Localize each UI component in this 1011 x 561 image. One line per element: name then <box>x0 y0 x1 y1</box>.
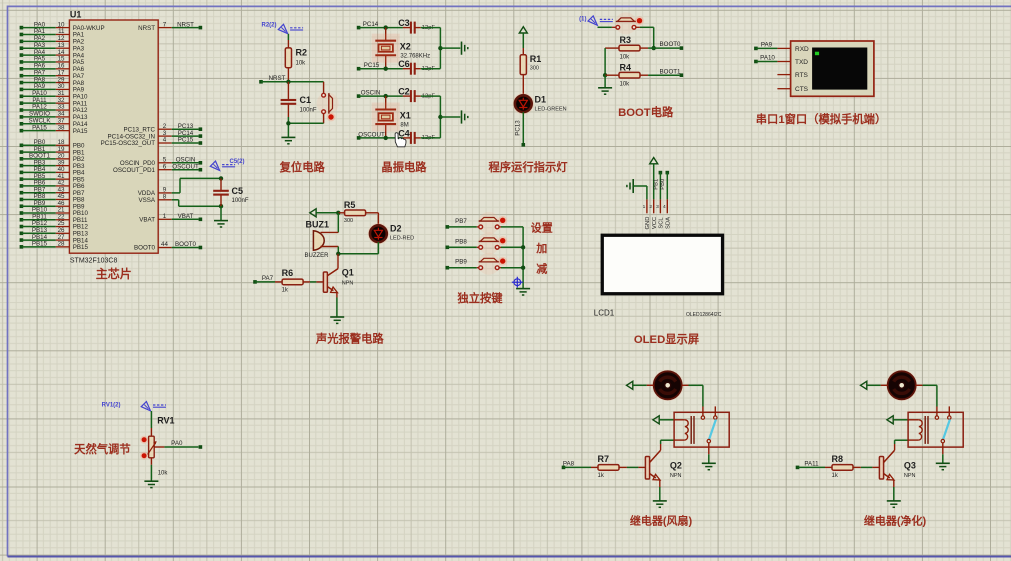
ground (OLED GND, left facing) <box>632 179 634 193</box>
svg-text:VBAT: VBAT <box>178 213 194 220</box>
capacitor C3 <box>403 27 411 29</box>
pin PA15 (38) wire <box>20 129 24 133</box>
resistor R4 <box>605 74 619 76</box>
svg-text:OLED12864I2C: OLED12864I2C <box>686 312 722 318</box>
svg-text:(1): (1) <box>579 17 586 23</box>
node PC13 <box>522 143 526 147</box>
ground (relay) <box>702 462 716 464</box>
crystal X1 <box>385 96 387 109</box>
resistor R2 <box>285 48 291 68</box>
svg-text:BOOT0: BOOT0 <box>175 241 197 248</box>
pin PB14 (27) wire <box>20 238 24 242</box>
wire D1 to PC13 node <box>522 112 524 145</box>
capacitor C5 <box>220 178 222 190</box>
wire C6 to ground rail <box>421 68 441 70</box>
svg-text:独立按键: 独立按键 <box>456 291 503 305</box>
net PB9 wire <box>446 266 450 270</box>
wire Q2 emitter to ground <box>659 487 661 501</box>
svg-text:R2: R2 <box>296 48 308 58</box>
resistor R5 <box>338 212 344 214</box>
net BOOT0 wire <box>654 47 680 49</box>
junction C5 bottom <box>219 204 223 208</box>
ground below C5 <box>214 220 228 222</box>
led D2 LED-RED <box>368 223 389 244</box>
svg-text:44: 44 <box>161 241 168 248</box>
pin PB13 (26) wire <box>20 232 24 236</box>
wire Q3 emitter to ground <box>893 487 895 501</box>
svg-text:减: 减 <box>536 261 547 275</box>
svg-text:R3: R3 <box>620 35 632 45</box>
push button PB8 <box>478 232 500 254</box>
junction OSCOUT/crystal <box>384 136 388 140</box>
svg-text:BOOT1: BOOT1 <box>660 68 682 75</box>
ground (buttons) <box>516 288 530 290</box>
origin marker <box>512 277 523 288</box>
ground (Q3) <box>887 500 901 502</box>
svg-text:2: 2 <box>649 204 652 210</box>
ground rail wire <box>439 96 441 138</box>
svg-text:100nF: 100nF <box>232 198 249 204</box>
power arrow (relay coil) <box>887 416 893 424</box>
wire C5 to ground <box>220 206 222 220</box>
svg-text:BOOT电路: BOOT电路 <box>618 105 674 119</box>
power arrow (motor) <box>861 381 867 389</box>
relay contact (common) <box>701 416 704 419</box>
svg-text:PC14: PC14 <box>363 21 379 28</box>
pin PB5 (41) wire <box>20 177 24 181</box>
push button (BOOT0) <box>615 12 637 34</box>
svg-text:X1: X1 <box>400 110 411 120</box>
terminal screen <box>812 48 867 90</box>
svg-text:LED-RED: LED-RED <box>390 236 414 242</box>
wire PB9 button to rail <box>499 267 501 269</box>
svg-text:1k: 1k <box>598 473 605 479</box>
pin PA1 (11) wire <box>20 33 24 37</box>
svg-text:VCC: VCC <box>652 217 658 229</box>
pin PB8 (45) wire <box>20 198 24 202</box>
svg-text:NPN: NPN <box>904 473 916 479</box>
svg-text:BUZZER: BUZZER <box>305 253 330 259</box>
pin stubs GND VCC SCL SDA <box>646 199 648 213</box>
svg-text:NRST: NRST <box>269 75 286 82</box>
svg-text:BOOT0: BOOT0 <box>134 245 156 252</box>
pin BOOT0 (44) wire / net BOOT0 <box>158 247 172 249</box>
svg-text:4: 4 <box>663 204 666 210</box>
pin PB7 (43) wire <box>20 191 24 195</box>
pin PB3 (39) wire <box>20 164 24 168</box>
wire power to coil <box>893 419 908 421</box>
svg-text:复位电路: 复位电路 <box>279 160 326 174</box>
transistor Q3 NPN <box>879 457 883 480</box>
pin PB11 (22) wire <box>20 218 24 222</box>
svg-text:RV1(2): RV1(2) <box>102 402 121 408</box>
relay pole contact <box>941 439 944 442</box>
pin PB0 (18) wire <box>20 144 24 148</box>
ground (relay) <box>936 462 950 464</box>
power arrow (indicator) <box>519 27 527 33</box>
svg-text:1: 1 <box>643 204 646 210</box>
svg-text:1k: 1k <box>832 473 839 479</box>
svg-text:4: 4 <box>163 137 167 144</box>
svg-text:8: 8 <box>163 194 167 201</box>
ground (Q2) <box>653 500 667 502</box>
mouse cursor <box>395 133 406 147</box>
svg-text:10k: 10k <box>620 54 631 60</box>
svg-text:继电器(净化): 继电器(净化) <box>864 514 927 528</box>
svg-text:X2: X2 <box>400 42 411 52</box>
svg-text:R4: R4 <box>620 62 632 72</box>
svg-text:VBAT: VBAT <box>139 217 155 224</box>
svg-text:NRST: NRST <box>177 21 194 28</box>
pin PC15-OSC32_OUT (4) wire / net PC15 <box>158 142 172 144</box>
svg-text:OSCIN: OSCIN <box>361 90 381 97</box>
svg-text:设置: 设置 <box>531 221 553 235</box>
pin PA4 (14) wire <box>20 53 24 57</box>
wire R3/R4 left rail <box>604 48 606 75</box>
svg-text:R7: R7 <box>598 454 610 464</box>
svg-text:PB8: PB8 <box>455 238 467 245</box>
svg-text:OSCOUT_PD1: OSCOUT_PD1 <box>113 167 156 174</box>
svg-text:GND: GND <box>645 217 651 230</box>
svg-text:STM32F103C8: STM32F103C8 <box>70 258 118 265</box>
svg-text:PB15: PB15 <box>73 244 89 251</box>
wire power to motor <box>867 384 881 386</box>
motor <box>886 370 917 401</box>
transistor Q1 NPN <box>337 254 339 269</box>
pin VBAT (1) wire / net VBAT <box>158 218 172 220</box>
svg-text:28: 28 <box>58 241 65 248</box>
wire pole to ground <box>942 443 944 455</box>
svg-text:PA0: PA0 <box>171 440 183 447</box>
ground (right facing) <box>461 42 463 55</box>
junction ground rail <box>438 115 442 119</box>
svg-text:R6: R6 <box>282 268 294 278</box>
virtual terminal body <box>791 41 874 96</box>
voltage probe R2(2) <box>278 24 287 33</box>
voltage probe RV1(2) <box>141 402 150 411</box>
wire R5 to D2 <box>377 213 379 226</box>
svg-text:C1: C1 <box>300 95 312 105</box>
buttons ground rail <box>522 227 524 289</box>
svg-text:RXD: RXD <box>795 46 809 53</box>
crystal X2 <box>385 28 387 41</box>
pin PB10 (21) wire <box>20 211 24 215</box>
relay coil <box>674 419 685 421</box>
svg-text:C4: C4 <box>398 128 410 138</box>
svg-text:PA15: PA15 <box>32 124 47 131</box>
junction PC14/crystal <box>384 25 388 29</box>
pot RV1 body <box>149 436 155 458</box>
svg-text:D2: D2 <box>390 224 402 234</box>
wire C2 to ground rail <box>421 95 441 97</box>
wire motor to relay contact <box>916 384 923 386</box>
svg-text:7: 7 <box>163 21 167 28</box>
pin PA7 (17) wire <box>20 74 24 78</box>
svg-text:PB0: PB0 <box>660 179 666 190</box>
motor <box>652 370 683 401</box>
svg-text:D1: D1 <box>535 95 547 105</box>
net PC14 wire <box>357 26 361 30</box>
capacitor C2 <box>403 95 411 97</box>
net PA7 wire <box>253 280 257 284</box>
wire collector to relay coil <box>660 440 662 444</box>
net PA11 wire <box>796 466 800 470</box>
ground (reset circuit) <box>281 136 295 138</box>
net BOOT1 wire <box>648 74 679 76</box>
svg-text:NRST: NRST <box>138 25 155 32</box>
pin PB4 (40) wire <box>20 171 24 175</box>
svg-text:SDA: SDA <box>666 217 672 229</box>
junction NRST/R2/C1 <box>286 80 290 84</box>
pin PB1 (19) wire <box>20 150 24 154</box>
pin PA12 (33) wire <box>20 108 24 112</box>
junction OSCIN/crystal <box>384 94 388 98</box>
svg-text:SCL: SCL <box>659 217 665 229</box>
svg-text:3: 3 <box>656 204 659 210</box>
svg-text:C6: C6 <box>398 59 410 69</box>
svg-text:晶振电路: 晶振电路 <box>381 160 427 174</box>
junction ground rail <box>438 46 442 50</box>
adjust buttons (red dots) <box>140 436 148 444</box>
wire emitter to ground <box>336 298 338 318</box>
wire probe to R2 <box>287 34 289 40</box>
svg-text:PB1: PB1 <box>653 179 659 190</box>
svg-text:NPN: NPN <box>670 473 682 479</box>
svg-text:BUZ1: BUZ1 <box>306 220 330 230</box>
ground (alarm) <box>330 316 344 318</box>
svg-text:300: 300 <box>344 218 353 224</box>
svg-text:C5: C5 <box>232 186 244 196</box>
push button (reset) <box>317 92 339 114</box>
svg-text:主芯片: 主芯片 <box>96 266 132 281</box>
relay pole contact <box>707 439 710 442</box>
svg-text:继电器(风扇): 继电器(风扇) <box>630 514 693 528</box>
svg-text:6: 6 <box>163 163 167 170</box>
junction R5/BUZ1 <box>336 211 340 215</box>
relay core <box>690 416 692 444</box>
svg-text:加: 加 <box>535 241 547 255</box>
svg-text:RV1: RV1 <box>157 415 174 425</box>
relay contact (common) <box>935 416 938 419</box>
resistor R8 <box>825 466 832 468</box>
wire D2 to emitter rail <box>377 242 379 254</box>
resistor R3 <box>605 47 619 49</box>
pin OSCOUT_PD1 (6) wire / net OSCOUT <box>158 169 172 171</box>
power arrow (alarm) <box>310 209 316 217</box>
svg-text:OSCOUT: OSCOUT <box>358 131 385 138</box>
pin NRST (7) wire / net NRST <box>158 27 172 29</box>
ground rail wire <box>439 28 441 69</box>
svg-text:PB15: PB15 <box>32 241 48 248</box>
svg-text:R5: R5 <box>344 200 356 210</box>
svg-text:NPN: NPN <box>342 280 354 286</box>
net PB1 wire <box>659 171 663 175</box>
wire motor to relay contact <box>682 384 689 386</box>
capacitor C1 <box>287 82 289 100</box>
pin PA11 (32) wire <box>20 101 24 105</box>
svg-text:Q3: Q3 <box>904 460 916 470</box>
wire collector to relay coil <box>894 440 896 444</box>
svg-text:PA11: PA11 <box>804 460 819 467</box>
wire R1 to D1 <box>522 75 524 96</box>
wire VCC <box>653 164 655 200</box>
wire power to coil <box>659 419 674 421</box>
capacitor C6 <box>403 68 411 70</box>
net PB0 wire <box>666 171 670 175</box>
pin PA10 (31) wire <box>20 95 24 99</box>
svg-text:R8: R8 <box>832 454 844 464</box>
wire R2 to NRST <box>287 68 289 82</box>
pin PC14-OSC32_IN (3) wire / net PC14 <box>158 135 172 137</box>
junction C1 bottom <box>286 121 290 125</box>
relay switch lever (cyan) <box>943 420 950 440</box>
push button PB9 <box>478 253 500 275</box>
pin BOOT1 (20) wire <box>20 157 24 161</box>
relay core <box>924 416 926 444</box>
node VDDA/C5 junction <box>219 176 223 180</box>
svg-text:10k: 10k <box>296 61 307 67</box>
svg-text:PA8: PA8 <box>563 460 575 467</box>
svg-text:PA9: PA9 <box>761 42 773 49</box>
wire button to C1 bottom rail <box>323 114 325 124</box>
relay coil <box>908 419 919 421</box>
svg-text:PC15-OSC32_OUT: PC15-OSC32_OUT <box>101 140 156 147</box>
svg-text:RTS: RTS <box>795 72 809 79</box>
wire C4 to ground rail <box>421 137 441 139</box>
svg-text:1k: 1k <box>282 288 289 294</box>
led D1 LED-GREEN <box>513 93 534 114</box>
svg-text:PC15: PC15 <box>364 62 380 69</box>
svg-text:38: 38 <box>58 124 65 131</box>
net PC15 wire <box>357 67 361 71</box>
wire NRST to button <box>323 82 325 93</box>
junction collector node <box>336 252 340 256</box>
relay contact (NC) stub <box>948 406 950 415</box>
pin PA6 (16) wire <box>20 67 24 71</box>
pin SWCLK (37) wire <box>20 122 24 126</box>
svg-text:CTS: CTS <box>795 86 809 93</box>
net PA9 wire <box>754 47 758 51</box>
svg-text:R1: R1 <box>530 54 542 64</box>
wire GND pin <box>633 185 647 187</box>
wire probe to RV1 <box>150 411 152 428</box>
transistor Q2 NPN <box>645 457 649 480</box>
junction R4 left <box>603 73 607 77</box>
ground (BOOT circuit) <box>598 87 612 89</box>
wire power to R1 <box>522 33 524 48</box>
junction rail PB9 <box>521 266 525 270</box>
svg-text:串口1窗口（模拟手机端）: 串口1窗口（模拟手机端） <box>756 112 887 126</box>
relay switch lever (cyan) <box>709 420 716 440</box>
svg-text:U1: U1 <box>70 9 82 19</box>
svg-text:PA15: PA15 <box>73 128 88 135</box>
net PA0 wire (pot wiper) <box>154 446 164 448</box>
terminal cursor <box>815 52 819 56</box>
power arrow (relay coil) <box>653 416 659 424</box>
svg-text:300: 300 <box>530 66 539 72</box>
pin VDDA (9) wire <box>158 192 172 194</box>
wire power to motor <box>633 384 647 386</box>
power arrow (OLED VCC) <box>650 158 658 164</box>
wire button to BOOT0 rail <box>636 26 640 28</box>
wire pot to ground <box>150 458 152 465</box>
svg-text:天然气调节: 天然气调节 <box>74 442 131 456</box>
push button PB7 <box>478 212 500 234</box>
wire probe to button <box>598 26 612 28</box>
wire C3 to ground rail <box>421 27 441 29</box>
net PB7 wire <box>446 225 450 229</box>
pin OSCIN_PD0 (5) wire / net OSCIN <box>158 162 172 164</box>
voltage probe (1) <box>588 16 597 25</box>
buzzer BUZ1 <box>337 213 339 233</box>
junction rail PB8 <box>521 245 525 249</box>
svg-text:PC15: PC15 <box>178 137 194 144</box>
voltage probe C5(2) <box>210 161 219 170</box>
resistor R1 <box>520 55 526 75</box>
svg-text:10k: 10k <box>620 81 631 87</box>
svg-text:1: 1 <box>163 213 167 220</box>
pin PA9 (30) wire <box>20 88 24 92</box>
svg-text:PA10: PA10 <box>760 55 775 62</box>
pin PA0 (10) wire <box>20 26 24 30</box>
power arrow (motor) <box>627 381 633 389</box>
pin RTS stub <box>777 74 790 76</box>
ground (right facing) <box>461 110 463 123</box>
svg-text:Q2: Q2 <box>670 460 682 470</box>
pin SWDIO (34) wire <box>20 115 24 119</box>
net PA8 wire <box>562 466 566 470</box>
svg-text:TXD: TXD <box>795 59 808 66</box>
svg-text:程序运行指示灯: 程序运行指示灯 <box>488 160 568 174</box>
capacitor C4 <box>403 137 411 139</box>
pin CTS stub <box>777 88 790 90</box>
pin PC13_RTC (2) wire / net PC13 <box>158 128 172 130</box>
lcd LCD1 OLED display body <box>601 234 725 296</box>
net PB8 wire <box>446 246 450 250</box>
wire PB8 button to rail <box>499 246 501 248</box>
resistor R6 <box>275 281 282 283</box>
svg-text:VSSA: VSSA <box>138 197 155 204</box>
pin PB6 (42) wire <box>20 184 24 188</box>
svg-text:LCD1: LCD1 <box>594 309 615 318</box>
svg-text:PB9: PB9 <box>455 259 467 266</box>
svg-text:R2(2): R2(2) <box>261 23 276 29</box>
relay box <box>674 412 729 447</box>
net OSCIN wire <box>357 94 361 98</box>
ground (pot) <box>144 480 158 482</box>
net PA10 wire <box>754 60 758 64</box>
junction BOOT0 <box>652 46 656 50</box>
svg-text:OLED显示屏: OLED显示屏 <box>634 333 699 346</box>
resistor R7 <box>591 466 598 468</box>
net OSCOUT wire <box>357 136 361 140</box>
svg-text:BOOT0: BOOT0 <box>660 41 682 48</box>
svg-text:Q1: Q1 <box>342 267 354 277</box>
pin VSSA (8) wire <box>158 199 172 201</box>
wire PB7 button to rail <box>499 226 501 228</box>
wire rail to ground <box>604 75 606 88</box>
pin PA2 (12) wire <box>20 40 24 44</box>
relay contact (NC) stub <box>714 406 716 415</box>
pin PB15 (28) wire <box>20 245 24 249</box>
pin PA8 (29) wire <box>20 81 24 85</box>
relay box <box>908 412 963 447</box>
svg-text:10k: 10k <box>158 471 169 477</box>
svg-text:C2: C2 <box>398 87 410 97</box>
net NRST wire <box>259 80 263 84</box>
svg-text:PC13: PC13 <box>515 120 522 136</box>
junction PC15/crystal <box>384 67 388 71</box>
